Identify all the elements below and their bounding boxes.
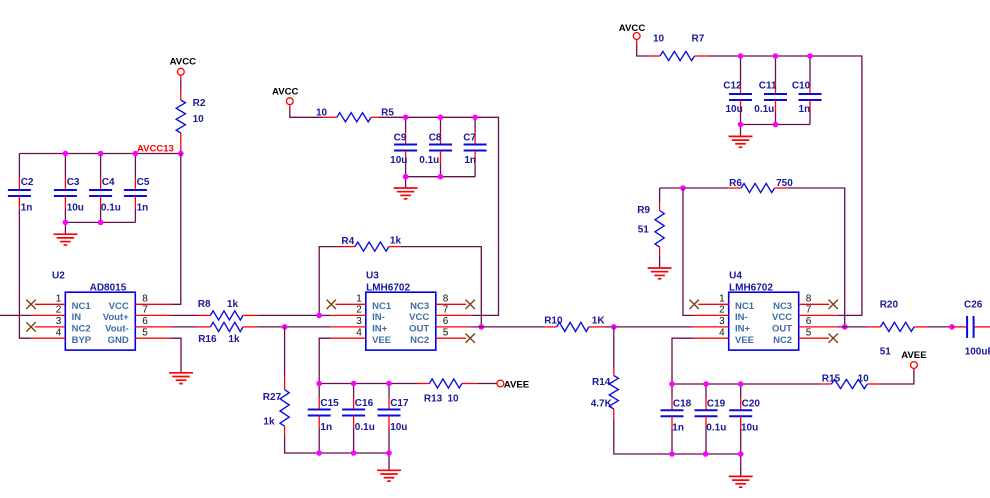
resistor R13 [418,383,430,385]
junction dot U3 IN- feedback [316,313,322,319]
capacitor C20 [740,384,742,398]
svg-text:1n: 1n [21,202,33,213]
op-amp U3 body [366,292,436,350]
resistor R8 [197,314,210,316]
wire U4 OUT net to R20 [838,326,868,328]
svg-text:GND: GND [108,335,129,346]
svg-text:7: 7 [142,305,148,316]
svg-text:6: 6 [142,316,148,327]
svg-text:AVEE: AVEE [901,350,927,361]
svg-text:3: 3 [56,316,62,327]
svg-text:IN+: IN+ [372,324,388,335]
resistor R16 [197,326,210,328]
svg-text:C9: C9 [394,133,407,144]
svg-text:IN-: IN- [372,312,385,323]
junction dots stage 3 supply rails [738,53,744,59]
resistor R10 [545,326,557,328]
svg-text:1n: 1n [672,422,684,433]
wire R13 to AVEE [477,383,497,385]
op-amp U2 body [65,292,135,350]
svg-text:Vout+: Vout+ [103,312,129,323]
svg-text:R8: R8 [198,299,211,310]
wire U3 VEE down to bypass rail [319,338,331,383]
svg-text:0.1u: 0.1u [419,155,439,166]
wire U2 VCC to AVCC13 rail [171,154,181,305]
U2 pin 6 Vout- stub [135,326,170,328]
U3 pin name labels [372,301,429,346]
svg-text:IN: IN [72,312,82,323]
svg-text:R27: R27 [263,392,282,403]
wire R9 to ground [659,255,661,268]
wire R6 feedback rail [660,187,729,189]
wire R4 to U3 OUT [401,247,481,327]
wire R8 to U3 IN- [258,314,332,316]
svg-text:OUT: OUT [409,324,429,335]
svg-text:NC2: NC2 [773,335,792,346]
svg-text:10u: 10u [741,422,758,433]
svg-text:1k: 1k [263,416,275,427]
U2 pin numbers [56,294,149,339]
svg-text:R20: R20 [880,300,899,311]
svg-text:51: 51 [880,347,892,358]
svg-text:C10: C10 [792,80,811,91]
resistor R20 [868,326,881,328]
ground (stage 3 cap bank) [740,125,742,136]
U2 pin 2 IN stub [31,314,65,316]
svg-text:10: 10 [316,108,328,119]
svg-text:NC2: NC2 [72,324,91,335]
U4 pin numbers [719,294,812,339]
wire AVCC rail stage 2 to U3 VCC [379,117,499,315]
U2 pin 4 BYP stub [31,337,65,339]
U2 pin 3 NC2 stub with no-connect X [35,326,65,328]
svg-text:C17: C17 [390,398,409,409]
junction dot U3 OUT feedback [479,324,485,330]
svg-text:4: 4 [56,327,62,338]
svg-text:IN-: IN- [735,312,748,323]
svg-text:R14: R14 [592,377,611,388]
svg-text:2: 2 [56,305,62,316]
U3 pin 6 OUT stub [436,326,471,328]
capacitor C18 [671,384,673,398]
svg-text:NC3: NC3 [773,301,792,312]
junction dot R10/R14 node [611,324,617,330]
capacitor C3 [64,154,66,179]
wire U3 OUT to R10 [470,326,545,328]
svg-text:NC3: NC3 [410,301,429,312]
svg-text:R9: R9 [637,205,650,216]
capacitor C19 [705,384,707,398]
svg-text:C19: C19 [707,398,726,409]
svg-text:R4: R4 [341,236,354,247]
wire AVCC to R2 [180,80,182,90]
svg-text:7: 7 [443,305,449,316]
resistor R14 [613,368,615,376]
svg-text:Vout-: Vout- [105,324,129,335]
junction dot R6/R9 node [680,185,686,191]
svg-text:1n: 1n [464,155,476,166]
resistor R27 [284,376,286,390]
svg-text:VEE: VEE [372,335,391,346]
capacitor C12 [740,56,742,82]
wire Vout+ to R8 [171,314,197,316]
svg-text:AD8015: AD8015 [90,282,127,293]
wire R27 branch [284,327,286,376]
U2 pin 5 GND stub [135,337,170,339]
ground (stage 1 cap bank) [64,222,66,233]
junction dots stage 2 bypass rails [316,381,322,387]
svg-text:0.1u: 0.1u [706,422,726,433]
junction dots bottom rail stage 1 [63,220,69,226]
U3 pin 3 IN+ stub [331,326,366,328]
U3 pin 5 NC2 stub with no-connect X [436,337,466,339]
wire R10 to U4 IN+ [604,326,694,328]
U3 pin 1 NC1 stub with no-connect X [336,303,366,305]
capacitor C11 [775,56,777,82]
svg-text:C3: C3 [67,177,80,188]
svg-text:8: 8 [443,294,449,305]
U3 pin 7 VCC stub [436,314,471,316]
wire AVCC to R7 [637,45,649,56]
svg-text:C12: C12 [723,80,742,91]
svg-text:R2: R2 [193,98,206,109]
svg-text:10u: 10u [390,422,407,433]
U2 pin 8 VCC stub [135,303,170,305]
U3 pin 4 VEE stub [331,337,366,339]
svg-text:1k: 1k [227,299,239,310]
svg-text:AVCC: AVCC [170,56,197,67]
svg-text:1n: 1n [320,422,332,433]
svg-text:6: 6 [443,316,449,327]
U4 pin 2 IN- stub [693,314,728,316]
wire R14 to bottom rail [614,419,741,454]
wire Vout- to R16 [171,326,197,328]
svg-text:C15: C15 [320,398,339,409]
svg-text:0.1u: 0.1u [754,104,774,115]
svg-text:NC2: NC2 [410,335,429,346]
svg-text:2: 2 [719,305,725,316]
svg-text:10: 10 [448,394,460,405]
svg-text:U3: U3 [366,270,379,281]
capacitor C17 [388,384,390,398]
svg-text:C11: C11 [759,80,777,91]
wire feedback node to U4 IN- [683,188,693,315]
U4 pin 5 NC2 stub with no-connect X [799,337,829,339]
wire AVCC13 rail [19,153,180,155]
wire AVCC to R5 [290,109,323,118]
U4 pin 3 IN+ stub [693,326,728,328]
svg-text:5: 5 [142,327,148,338]
capacitor C5 [134,154,136,179]
capacitor C2 [18,154,20,179]
capacitor C26 [952,326,966,328]
ground (R9) [648,268,672,279]
wire R6 to U4 OUT [788,188,845,327]
ground (stage 2 cap bank) [405,177,407,188]
svg-text:10u: 10u [67,202,84,213]
wire R4 feedback loop [319,247,342,316]
U4 pin 7 VCC stub [799,314,838,316]
resistor R15 [821,383,832,385]
svg-text:10u: 10u [390,155,407,166]
U2 pin name labels [72,301,130,346]
capacitor C10 [809,56,811,82]
svg-text:1k: 1k [228,334,240,345]
wire stage 2 bypass top rail [319,383,417,385]
svg-text:C16: C16 [355,398,374,409]
svg-text:C18: C18 [673,398,692,409]
svg-text:0.1u: 0.1u [101,202,121,213]
svg-text:2: 2 [356,305,362,316]
power symbol AVEE (stage 2) [497,380,504,387]
wire R20 to C26 [927,326,952,328]
wire cap bank bottom rail (stage 1) [65,221,135,223]
resistor R4 [342,246,355,248]
svg-text:8: 8 [142,294,148,305]
svg-text:1n: 1n [137,202,149,213]
svg-text:1k: 1k [390,235,402,246]
svg-text:C2: C2 [21,177,34,188]
U2 pin 1 NC1 stub with no-connect X [35,303,65,305]
svg-text:3: 3 [719,316,725,327]
U4 pin 1 NC1 stub with no-connect X [698,303,728,305]
svg-text:C26: C26 [964,300,983,311]
svg-text:4: 4 [356,327,362,338]
resistor R2 [180,90,182,100]
svg-text:R7: R7 [692,33,705,44]
svg-text:IN+: IN+ [735,324,751,335]
U4 pin 6 OUT stub [799,326,838,328]
wire cap bank bottom rail (stage 2) [406,176,476,178]
svg-text:AVCC: AVCC [619,23,646,34]
op-amp U4 body [729,292,799,350]
svg-text:1K: 1K [592,316,606,327]
svg-text:OUT: OUT [772,324,792,335]
U3 pin 8 NC3 stub with no-connect X [436,303,466,305]
svg-text:C7: C7 [463,133,476,144]
svg-text:1n: 1n [799,104,811,115]
junction dots stage 3 bypass rails [669,381,675,387]
svg-text:10: 10 [193,114,205,125]
svg-text:1: 1 [356,294,362,305]
ground (stage 3 bypass) [740,454,742,476]
junction dots stage 2 supply rails [403,115,409,121]
svg-text:C5: C5 [137,177,150,188]
capacitor C9 [405,117,407,132]
wire R14 branch [613,327,615,368]
svg-text:10: 10 [858,373,870,384]
svg-text:R10: R10 [544,316,563,327]
svg-text:R16: R16 [198,334,217,345]
U3 pin 2 IN- stub [331,314,366,316]
wire R27 to bottom rail [285,437,389,453]
svg-text:10u: 10u [725,104,742,115]
wire R2 to AVCC13 rail [180,149,182,154]
svg-text:LMH6702: LMH6702 [729,282,773,293]
resistor R6 [728,187,741,189]
svg-text:R15: R15 [822,373,841,384]
svg-text:8: 8 [806,294,812,305]
capacitor C8 [440,117,442,132]
svg-text:4: 4 [719,327,725,338]
junction dots AVCC13 rail [63,151,69,157]
svg-text:VEE: VEE [735,335,754,346]
svg-text:U2: U2 [52,270,65,281]
U4 pin 8 NC3 stub with no-connect X [799,303,829,305]
svg-text:NC1: NC1 [372,301,392,312]
svg-text:4.7K: 4.7K [591,399,613,410]
svg-text:VCC: VCC [109,301,129,312]
svg-text:BYP: BYP [72,335,92,346]
svg-text:5: 5 [806,327,812,338]
svg-text:U4: U4 [729,270,742,281]
svg-text:C20: C20 [742,398,761,409]
wire U2 GND down [171,338,181,372]
svg-text:C4: C4 [102,177,115,188]
svg-text:NC1: NC1 [72,301,92,312]
svg-text:VCC: VCC [772,312,792,323]
U2 pin 7 Vout+ stub [135,314,170,316]
wire R16 to U3 IN+ [258,326,332,328]
capacitor C15 [318,384,320,398]
capacitor C7 [474,117,476,132]
wire R15 to AVEE [879,368,914,384]
capacitor C4 [100,154,102,179]
wire cap bank bottom rail (stage 3) [741,124,811,126]
svg-text:NC1: NC1 [735,301,755,312]
wire stage 3 bypass top rail [672,383,821,385]
svg-text:100uF: 100uF [965,347,990,358]
ground (U2 GND pin) [169,373,193,384]
wire AVCC rail stage 3 to U4 VCC [708,56,862,315]
svg-text:AVCC: AVCC [272,87,299,98]
svg-text:VCC: VCC [409,312,429,323]
resistor R7 [649,55,661,57]
resistor R9 [659,188,661,203]
svg-text:51: 51 [638,225,650,236]
svg-text:5: 5 [443,327,449,338]
svg-text:1: 1 [56,294,62,305]
svg-text:6: 6 [806,316,812,327]
svg-text:3: 3 [356,316,362,327]
svg-text:0.1u: 0.1u [355,422,375,433]
svg-text:10: 10 [653,33,665,44]
U3 pin numbers [356,294,449,339]
svg-text:LMH6702: LMH6702 [366,282,410,293]
svg-text:AVEE: AVEE [504,379,530,390]
junction dot U3 IN+ branch [282,324,288,330]
wire C2 to BYP pin [19,209,31,338]
svg-text:C8: C8 [429,133,442,144]
wire U4 VEE down to bypass rail [672,338,693,384]
svg-text:R13: R13 [424,394,443,405]
junction dot output node [949,324,955,330]
capacitor C16 [353,384,355,398]
wire input net to U2 IN [0,314,31,316]
svg-text:R6: R6 [729,178,742,189]
U4 pin name labels [735,301,792,346]
power symbol AVEE (stage 3) [911,362,918,369]
ground (stage 2 bypass) [388,453,390,470]
junction dot U4 OUT feedback [842,324,848,330]
svg-text:7: 7 [806,305,812,316]
svg-text:1: 1 [719,294,725,305]
resistor R5 [323,116,337,118]
U4 pin 4 VEE stub [693,337,728,339]
